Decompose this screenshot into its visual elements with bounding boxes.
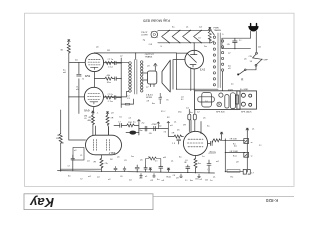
svg-text:#4: #4 <box>198 38 201 40</box>
svg-text:o6: o6 <box>140 160 143 162</box>
svg-text:#J: #J <box>118 121 120 123</box>
svg-text:1 3: 1 3 <box>172 143 176 145</box>
svg-text:6o: 6o <box>68 176 71 178</box>
svg-text:Z A 4.6: Z A 4.6 <box>146 93 154 96</box>
svg-text:a9: a9 <box>236 162 239 164</box>
svg-text:w9: w9 <box>163 157 167 159</box>
svg-text:#6: #6 <box>166 100 169 102</box>
svg-text:o1: o1 <box>186 27 189 29</box>
svg-text:#R 100K: #R 100K <box>230 151 239 153</box>
svg-text:2o: 2o <box>231 84 234 86</box>
svg-text:4a: 4a <box>133 122 136 124</box>
svg-text:#5w: #5w <box>139 130 143 132</box>
svg-text:a2: a2 <box>228 53 231 55</box>
svg-text:6SL7: 6SL7 <box>108 151 115 155</box>
svg-text:w4: w4 <box>199 27 203 29</box>
svg-text:36: 36 <box>60 50 63 52</box>
svg-text:#R: #R <box>111 118 114 120</box>
svg-text:a2: a2 <box>200 179 203 181</box>
svg-text:w6: w6 <box>205 180 209 182</box>
svg-text:3a: 3a <box>207 126 210 128</box>
svg-text:4a: 4a <box>157 179 160 181</box>
svg-text:C 1w: C 1w <box>108 101 113 103</box>
svg-text:#L3: #L3 <box>149 44 153 46</box>
svg-text:2w: 2w <box>142 123 145 125</box>
svg-text:#6: #6 <box>120 176 123 178</box>
svg-text:1#: 1# <box>239 40 242 42</box>
svg-text:OFF: OFF <box>264 60 269 62</box>
svg-text:25K: 25K <box>128 122 132 124</box>
svg-text:a2: a2 <box>146 87 149 89</box>
svg-text:25: 25 <box>177 130 180 132</box>
svg-text:5: 5 <box>222 34 224 36</box>
svg-text:Rale: Rale <box>167 176 172 178</box>
svg-text:o6: o6 <box>244 59 247 61</box>
svg-text:46k: 46k <box>87 120 91 122</box>
svg-text:ON: ON <box>249 56 253 58</box>
svg-text:#R: #R <box>88 117 91 119</box>
svg-text:46k: 46k <box>107 75 111 77</box>
svg-text:E-w: E-w <box>233 156 237 158</box>
svg-text:o2: o2 <box>108 179 111 181</box>
svg-text:( ): ( ) <box>208 169 210 171</box>
svg-text:a9: a9 <box>147 66 150 68</box>
svg-text:F2: F2 <box>167 117 170 119</box>
svg-text:2#: 2# <box>155 161 158 163</box>
svg-text:.02: .02 <box>150 180 154 182</box>
svg-text:6SQ7: 6SQ7 <box>208 151 216 155</box>
svg-text:25o: 25o <box>178 112 182 114</box>
svg-text:a6: a6 <box>117 157 120 159</box>
svg-text:w6: w6 <box>63 72 67 74</box>
svg-text:.1: .1 <box>97 113 100 115</box>
svg-text:#J: #J <box>82 79 84 81</box>
svg-text:5Y3: 5Y3 <box>200 67 206 71</box>
svg-text:#R: #R <box>93 162 96 164</box>
svg-text:a4: a4 <box>97 177 100 179</box>
svg-text:K-820: K-820 <box>265 198 278 203</box>
svg-text:Eo: Eo <box>231 176 234 178</box>
svg-text:7g: 7g <box>143 40 146 42</box>
svg-text:#R 10K: #R 10K <box>230 139 238 141</box>
svg-text:o4: o4 <box>87 161 90 163</box>
svg-text:o2: o2 <box>120 56 123 58</box>
svg-text:TRANS: TRANS <box>145 55 153 58</box>
svg-text:1a: 1a <box>202 156 205 158</box>
svg-text:4a: 4a <box>190 112 193 114</box>
svg-text:470K: 470K <box>152 124 158 126</box>
svg-text:2K: 2K <box>110 159 113 161</box>
svg-text:31w: 31w <box>107 82 111 84</box>
svg-text:450V: 450V <box>228 89 234 91</box>
svg-text:w2: w2 <box>216 161 220 163</box>
svg-text:o1: o1 <box>174 122 177 124</box>
svg-text:a1: a1 <box>213 177 216 179</box>
svg-text:#R: #R <box>172 132 175 134</box>
svg-text:.05: .05 <box>149 133 153 135</box>
svg-text:1w: 1w <box>129 180 132 182</box>
svg-text:a4: a4 <box>170 125 173 127</box>
svg-text:17: 17 <box>251 173 254 175</box>
svg-text:2w: 2w <box>204 46 207 48</box>
svg-text:.5: .5 <box>160 46 163 48</box>
svg-text:Kay: Kay <box>29 195 54 210</box>
svg-text:a1: a1 <box>171 161 174 163</box>
svg-text:#1: #1 <box>80 155 83 157</box>
svg-text:C 1w: C 1w <box>108 67 113 69</box>
svg-text:a9: a9 <box>228 68 231 70</box>
svg-text:#1: #1 <box>241 80 244 82</box>
svg-text:#T 7a: #T 7a <box>108 59 114 61</box>
svg-text:w: w <box>251 155 253 157</box>
svg-text:1w: 1w <box>131 156 134 158</box>
svg-text:w5: w5 <box>258 47 262 49</box>
svg-text:a2: a2 <box>74 150 77 152</box>
svg-text:o4: o4 <box>162 180 165 182</box>
svg-text:#9: #9 <box>124 160 127 162</box>
svg-text:.05: .05 <box>227 44 231 46</box>
svg-text:1R: 1R <box>183 125 186 127</box>
svg-text:6#: 6# <box>181 99 184 101</box>
svg-text:LIGHT: LIGHT <box>141 35 148 37</box>
svg-text:o9: o9 <box>176 178 179 180</box>
svg-text:#9r: #9r <box>105 162 108 165</box>
svg-text:2w: 2w <box>75 60 78 62</box>
svg-text:#T 7a: #T 7a <box>107 94 113 96</box>
svg-text:w#: w# <box>197 112 201 114</box>
svg-text:4w: 4w <box>152 103 155 105</box>
svg-text:4w: 4w <box>234 146 237 148</box>
svg-text:6w: 6w <box>190 180 193 182</box>
svg-text:14: 14 <box>250 61 253 63</box>
svg-text:1R: 1R <box>107 50 110 52</box>
svg-text:2#: 2# <box>259 145 262 147</box>
svg-text:6a: 6a <box>172 27 175 29</box>
svg-text:a6: a6 <box>96 47 99 49</box>
svg-text:a1: a1 <box>145 176 148 178</box>
svg-text:w2: w2 <box>88 176 92 178</box>
svg-text:#J: #J <box>67 166 69 168</box>
svg-text:4w: 4w <box>61 143 64 145</box>
svg-text:6o: 6o <box>179 157 182 159</box>
svg-text:6V6: 6V6 <box>84 109 90 113</box>
svg-text:o1: o1 <box>252 129 255 131</box>
svg-text:B+ GND: B+ GND <box>240 89 249 91</box>
svg-text:SPKR: SPKR <box>146 97 152 99</box>
svg-text:o9: o9 <box>147 101 150 103</box>
svg-text:4w: 4w <box>198 163 201 165</box>
svg-text:11K: 11K <box>56 138 60 140</box>
svg-text:SPK JACK: SPK JACK <box>241 111 252 114</box>
svg-text:w: w <box>251 142 253 144</box>
svg-text:1o: 1o <box>210 180 213 182</box>
svg-text:#R: #R <box>57 135 60 137</box>
svg-text:#R: #R <box>184 162 187 164</box>
svg-text:C1: C1 <box>127 98 131 100</box>
svg-text:o2: o2 <box>129 118 132 120</box>
svg-text:#2: #2 <box>80 179 83 181</box>
svg-text:Kay Model 820: Kay Model 820 <box>142 18 169 23</box>
svg-text:a9: a9 <box>111 113 114 115</box>
svg-text:#w: #w <box>119 117 122 119</box>
svg-text:F1 #: F1 # <box>161 111 166 113</box>
svg-text:o5: o5 <box>203 118 206 120</box>
svg-text:#4: #4 <box>185 160 188 162</box>
svg-text:TRANS: TRANS <box>214 29 222 32</box>
svg-text:6V6: 6V6 <box>85 74 91 78</box>
svg-text:SPK 820: SPK 820 <box>216 111 225 113</box>
svg-text:2#: 2# <box>185 180 188 182</box>
svg-text:#6: #6 <box>164 132 167 134</box>
